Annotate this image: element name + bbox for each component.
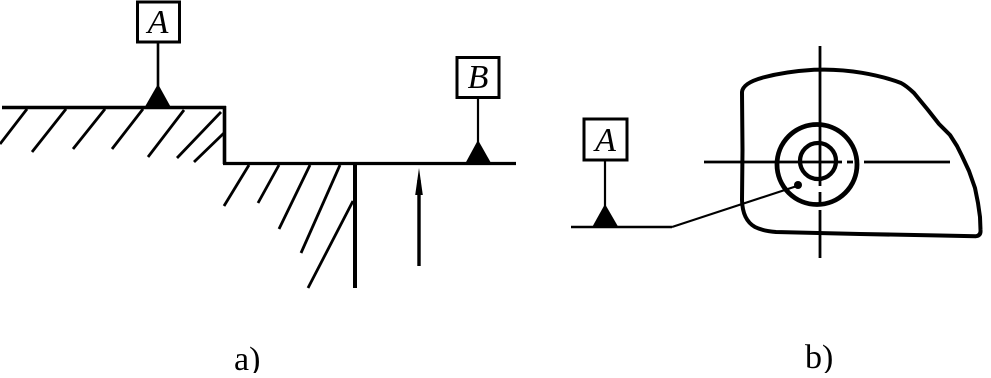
dimension arrowhead <box>415 168 423 195</box>
leader end dot <box>794 181 802 189</box>
svg-text:A: A <box>146 4 169 41</box>
hatch line 2 <box>32 109 66 152</box>
datum label frame A (figure b) <box>584 119 627 160</box>
slanted leader to hole <box>672 186 797 227</box>
leader wire from box B to triangle <box>477 97 479 144</box>
hatch line 4 <box>112 109 143 149</box>
hatch line 5 <box>148 110 184 157</box>
step vertical edge <box>223 106 227 164</box>
hatch line 8 <box>224 165 249 206</box>
horizontal centerline right segment <box>864 161 950 164</box>
hole inner circle <box>800 143 836 179</box>
svg-text:b): b) <box>805 339 833 373</box>
hatch line 10 <box>279 165 310 229</box>
datum triangle A (figure b) <box>593 204 619 227</box>
svg-text:A: A <box>593 122 616 159</box>
svg-text:a): a) <box>234 341 260 373</box>
part outline (figure b) <box>742 70 981 237</box>
hatch line 12 <box>308 201 353 288</box>
hatch line 9 <box>258 165 279 203</box>
hatch line 3 <box>73 109 105 149</box>
hatch line 7 <box>194 133 224 162</box>
leader wire from box A to triangle <box>157 42 160 88</box>
vertical centerline lower segment <box>819 210 822 258</box>
hatch line 6 <box>177 112 221 158</box>
datum label frame B <box>457 58 499 98</box>
svg-text:B: B <box>468 59 489 96</box>
vertical centerline upper segment <box>819 46 822 186</box>
vertical centerline short dash <box>819 192 822 204</box>
datum label frame A (figure a) <box>138 2 180 42</box>
hole outer circle <box>777 125 857 205</box>
part right vertical edge <box>353 162 357 288</box>
lower surface line <box>223 162 516 165</box>
leader wire from box A to triangle (figure b) <box>604 160 606 208</box>
hatch line 11 <box>301 165 340 253</box>
horizontal centerline left segment <box>704 161 842 164</box>
horizontal centerline short dash <box>847 161 853 164</box>
dimension arrow shaft <box>417 180 420 266</box>
datum triangle B <box>466 140 492 163</box>
datum triangle A <box>145 84 172 108</box>
top surface line <box>2 106 226 110</box>
datum reference surface line (figure b) <box>571 226 672 229</box>
hatch line 1 <box>0 109 27 144</box>
